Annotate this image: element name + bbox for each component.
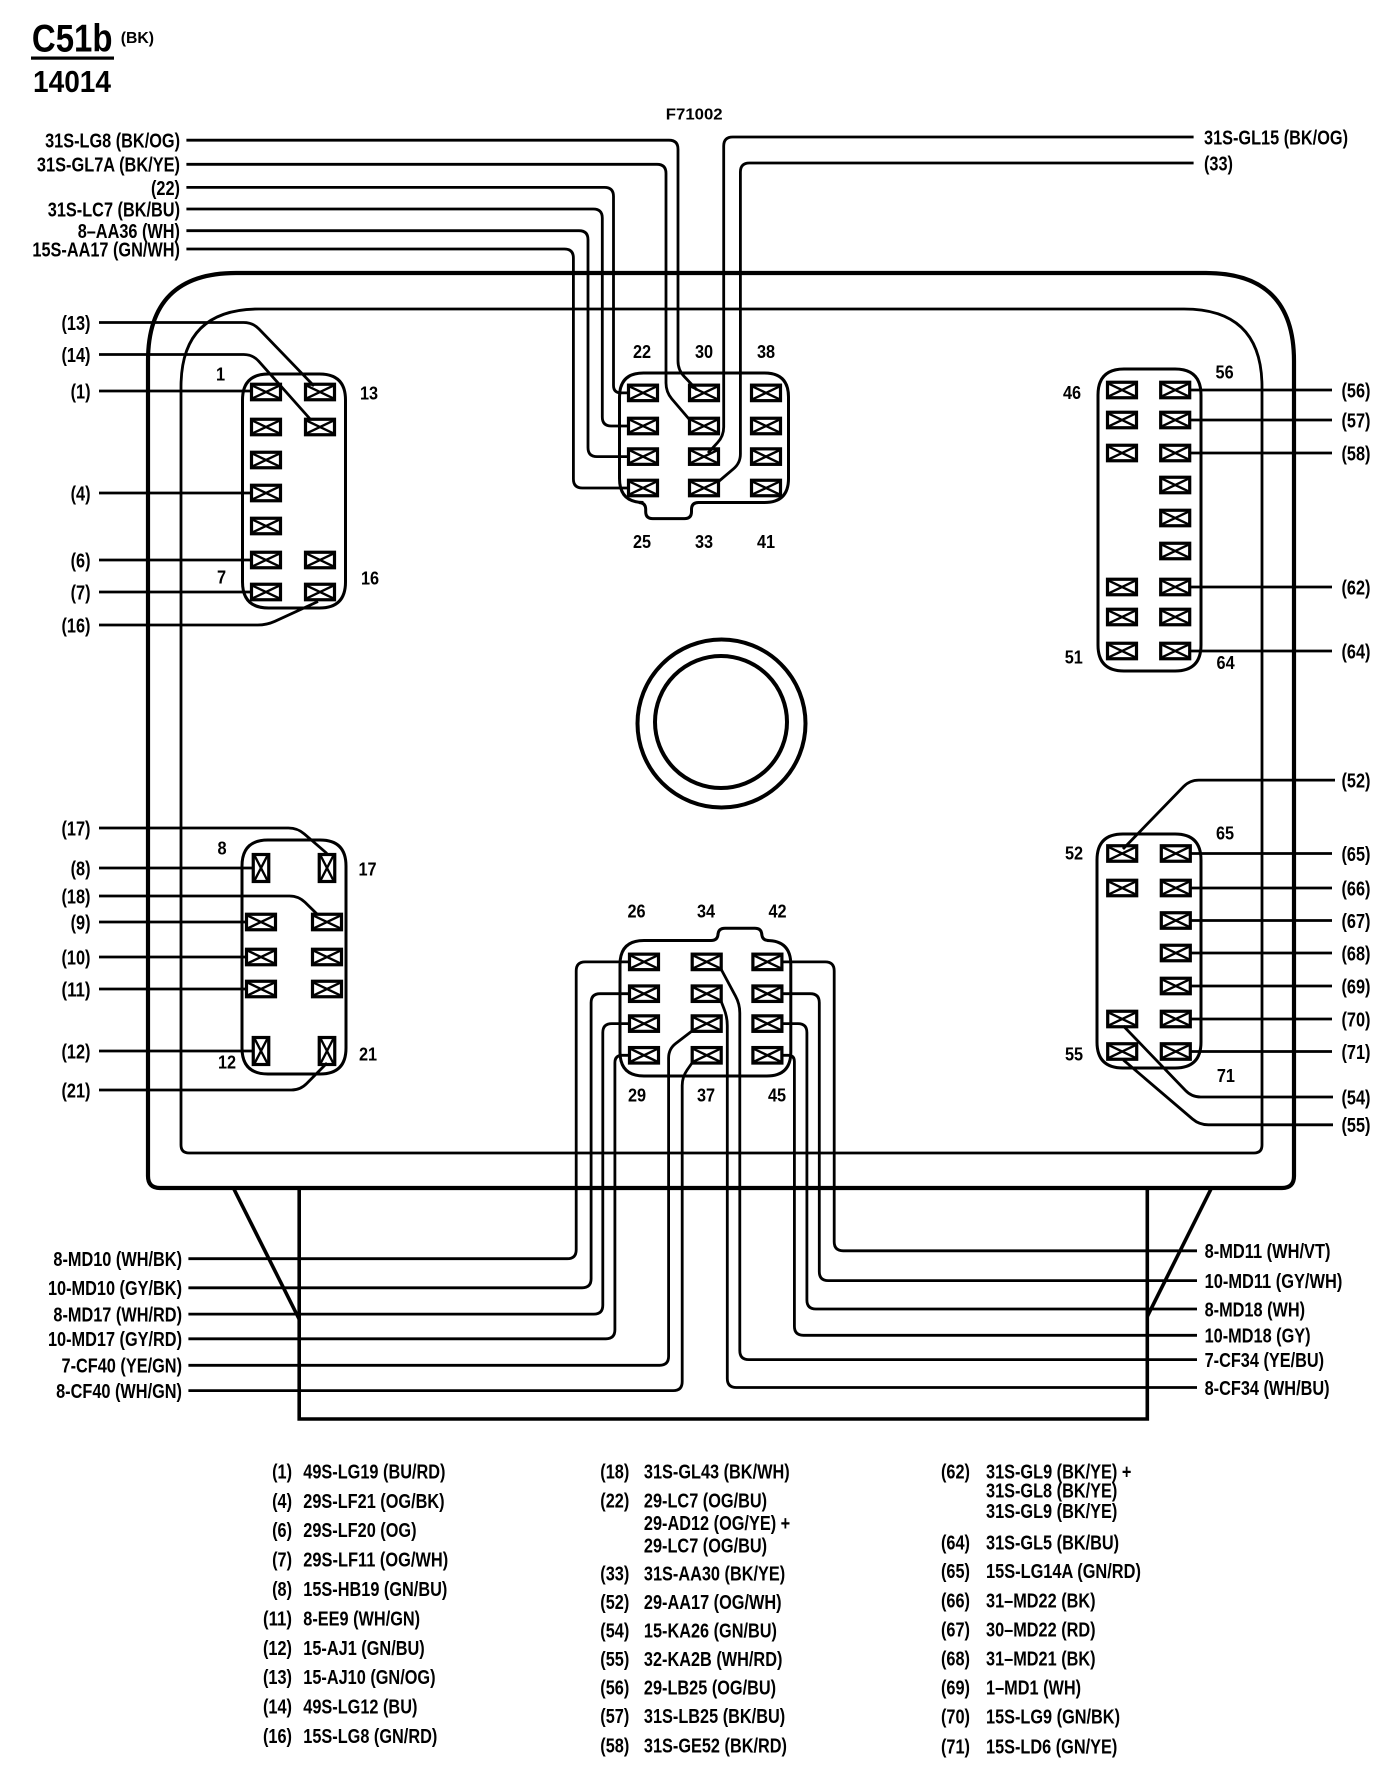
- wire wire 7-CF40 (YE/GN): [188, 1031, 692, 1365]
- svg-text:29: 29: [628, 1085, 646, 1106]
- svg-text:8-MD18 (WH): 8-MD18 (WH): [1205, 1298, 1306, 1321]
- pin 8: [253, 855, 269, 882]
- connector inner outline: [181, 309, 1262, 1153]
- wire 31S-LC7 (BK/BU) to pin 23: [186, 209, 628, 426]
- svg-text:51: 51: [1065, 647, 1083, 668]
- svg-text:31S-LC7 (BK/BU): 31S-LC7 (BK/BU): [48, 198, 180, 221]
- svg-text:10-MD17 (GY/RD): 10-MD17 (GY/RD): [48, 1328, 182, 1351]
- svg-text:15S-AA17 (GN/WH): 15S-AA17 (GN/WH): [32, 238, 180, 261]
- svg-text:(57): (57): [1342, 409, 1371, 432]
- pin 42: [753, 954, 782, 970]
- keyway circle outer: [638, 640, 806, 808]
- wire callout (68): [1190, 952, 1332, 955]
- wire wire 10-MD18 (GY): [782, 1055, 1197, 1335]
- pin 29: [630, 1048, 659, 1064]
- svg-text:(67): (67): [941, 1618, 970, 1641]
- svg-text:(1): (1): [71, 380, 91, 403]
- svg-text:7-CF34 (YE/BU): 7-CF34 (YE/BU): [1205, 1349, 1325, 1372]
- svg-text:(69): (69): [1342, 975, 1371, 998]
- svg-text:(18): (18): [62, 885, 91, 908]
- svg-text:(55): (55): [1342, 1114, 1371, 1137]
- pin 26: [630, 954, 659, 970]
- cavity block C outline (pins 22-41): [620, 373, 789, 519]
- svg-text:(8): (8): [272, 1578, 292, 1601]
- svg-text:(33): (33): [600, 1562, 629, 1585]
- pin 13: [306, 384, 335, 400]
- pin 64: [1161, 643, 1190, 659]
- svg-text:71: 71: [1217, 1065, 1235, 1086]
- pin 53: [1108, 880, 1137, 896]
- pin 9: [247, 914, 276, 930]
- cavity block D outline (pins 26-45): [620, 928, 791, 1076]
- wire callout (6): [99, 559, 252, 562]
- wire callout (57): [1190, 419, 1332, 422]
- wire wire 10-MD17 (GY/RD): [188, 1055, 629, 1339]
- svg-text:(70): (70): [941, 1705, 970, 1728]
- svg-text:(10): (10): [62, 946, 91, 969]
- pin 32: [690, 449, 719, 465]
- pin 30: [690, 385, 719, 401]
- svg-text:29-LC7 (OG/BU): 29-LC7 (OG/BU): [644, 1534, 767, 1557]
- svg-text:(52): (52): [600, 1591, 629, 1614]
- wire callout (64): [1190, 650, 1332, 653]
- pin 66: [1161, 880, 1190, 896]
- pin 31: [690, 418, 719, 434]
- svg-text:(17): (17): [62, 817, 91, 840]
- svg-text:10-MD11 (GY/WH): 10-MD11 (GY/WH): [1205, 1270, 1343, 1293]
- svg-text:(12): (12): [263, 1637, 292, 1660]
- pin 48: [1108, 445, 1137, 461]
- svg-text:30–MD22 (RD): 30–MD22 (RD): [986, 1618, 1096, 1641]
- wire callout (12): [99, 1050, 253, 1053]
- pin 37: [692, 1048, 721, 1064]
- pin 51: [1108, 643, 1137, 659]
- cavity block E outline (pins 46-64): [1098, 369, 1201, 671]
- svg-text:(55): (55): [600, 1648, 629, 1671]
- svg-text:38: 38: [757, 341, 775, 362]
- svg-text:(57): (57): [600, 1705, 629, 1728]
- wire callout (55): [1123, 1060, 1333, 1125]
- svg-text:(56): (56): [1342, 379, 1371, 402]
- wire 15S-AA17 (GN/WH) to pin 25: [186, 249, 628, 488]
- svg-text:8-EE9 (WH/GN): 8-EE9 (WH/GN): [303, 1607, 420, 1630]
- svg-text:(54): (54): [1342, 1086, 1371, 1109]
- wire callout (16): [99, 602, 318, 626]
- svg-text:(65): (65): [1342, 843, 1371, 866]
- svg-text:(69): (69): [941, 1676, 970, 1699]
- pin 15: [306, 552, 335, 568]
- pin 20: [313, 981, 342, 997]
- svg-text:14014: 14014: [33, 64, 112, 99]
- svg-text:(68): (68): [941, 1647, 970, 1670]
- svg-text:(12): (12): [62, 1040, 91, 1063]
- svg-text:(66): (66): [1342, 877, 1371, 900]
- wire wire 10-MD10 (GY/BK): [188, 994, 629, 1288]
- svg-text:12: 12: [218, 1052, 236, 1073]
- pin 46: [1108, 382, 1137, 398]
- pin 67: [1161, 913, 1190, 929]
- svg-text:(66): (66): [941, 1589, 970, 1612]
- svg-text:(13): (13): [62, 312, 91, 335]
- svg-text:46: 46: [1063, 382, 1081, 403]
- svg-text:13: 13: [360, 383, 378, 404]
- pin 71: [1161, 1044, 1190, 1060]
- svg-text:(64): (64): [941, 1531, 970, 1554]
- svg-text:8-CF40 (WH/GN): 8-CF40 (WH/GN): [56, 1380, 182, 1403]
- svg-text:49S-LG12 (BU): 49S-LG12 (BU): [303, 1696, 417, 1719]
- svg-text:32-KA2B (WH/RD): 32-KA2B (WH/RD): [644, 1648, 783, 1671]
- pin 1: [252, 384, 281, 400]
- svg-text:31–MD21 (BK): 31–MD21 (BK): [986, 1647, 1096, 1670]
- svg-text:15-AJ1 (GN/BU): 15-AJ1 (GN/BU): [303, 1637, 424, 1660]
- wire callout (9): [99, 921, 247, 924]
- pin 52: [1108, 846, 1137, 862]
- svg-text:10-MD18 (GY): 10-MD18 (GY): [1205, 1325, 1311, 1348]
- svg-text:(BK): (BK): [121, 30, 154, 47]
- svg-text:21: 21: [359, 1044, 377, 1065]
- svg-text:C51b: C51b: [32, 18, 113, 61]
- wire callout (8): [99, 867, 253, 870]
- wire callout (10): [99, 956, 247, 959]
- svg-text:8-MD10 (WH/BK): 8-MD10 (WH/BK): [53, 1248, 182, 1271]
- wire callout (62): [1190, 586, 1332, 589]
- svg-text:(54): (54): [600, 1619, 629, 1642]
- svg-text:29S-LF20 (OG): 29S-LF20 (OG): [303, 1519, 416, 1542]
- wire callout (18): [99, 896, 317, 914]
- svg-text:7-CF40 (YE/GN): 7-CF40 (YE/GN): [62, 1355, 183, 1378]
- pin 70: [1161, 1011, 1190, 1027]
- pin 5: [252, 518, 281, 534]
- wire wire 8-MD11 (WH/VT): [782, 962, 1197, 1251]
- pin 62: [1161, 579, 1190, 595]
- svg-text:(71): (71): [941, 1735, 970, 1758]
- pin 55: [1108, 1044, 1137, 1060]
- pin 49: [1108, 579, 1137, 595]
- wire wire 8-MD10 (WH/BK): [188, 962, 629, 1259]
- svg-text:29-AA17 (OG/WH): 29-AA17 (OG/WH): [644, 1591, 782, 1614]
- svg-text:(62): (62): [941, 1460, 970, 1483]
- svg-text:31S-GL7A (BK/YE): 31S-GL7A (BK/YE): [37, 154, 180, 177]
- svg-text:(58): (58): [600, 1734, 629, 1757]
- wire 8-AA36 (WH) to pin 24: [186, 231, 628, 457]
- svg-text:15S-HB19 (GN/BU): 15S-HB19 (GN/BU): [303, 1578, 447, 1601]
- svg-text:29S-LF21 (OG/BK): 29S-LF21 (OG/BK): [303, 1490, 444, 1513]
- svg-text:(71): (71): [1342, 1041, 1371, 1064]
- svg-text:25: 25: [633, 531, 651, 552]
- svg-text:(67): (67): [1342, 910, 1371, 933]
- pin 39: [752, 418, 781, 434]
- svg-text:(16): (16): [62, 614, 91, 637]
- wire wire 7-CF34 (YE/BU): [721, 969, 1197, 1360]
- wire callout (67): [1190, 919, 1332, 922]
- svg-text:8-MD17 (WH/RD): 8-MD17 (WH/RD): [53, 1304, 182, 1327]
- pin 34: [692, 954, 721, 970]
- pin 56: [1161, 382, 1190, 398]
- wire callout (58): [1190, 452, 1332, 455]
- pin 63: [1161, 609, 1190, 625]
- pin 33: [690, 480, 719, 496]
- connector outer outline: [148, 273, 1294, 1188]
- pin 21: [319, 1038, 335, 1065]
- pin 41: [752, 480, 781, 496]
- pin 2: [252, 419, 281, 435]
- pin 57: [1161, 412, 1190, 428]
- svg-text:15S-LG9 (GN/BK): 15S-LG9 (GN/BK): [986, 1705, 1120, 1728]
- svg-text:8-MD11 (WH/VT): 8-MD11 (WH/VT): [1205, 1240, 1331, 1263]
- svg-text:31–MD22 (BK): 31–MD22 (BK): [986, 1589, 1096, 1612]
- svg-text:8: 8: [217, 838, 226, 859]
- pin 44: [753, 1016, 782, 1032]
- wire wire 10-MD11 (GY/WH): [782, 994, 1197, 1281]
- svg-text:41: 41: [757, 531, 775, 552]
- svg-text:8-CF34 (WH/BU): 8-CF34 (WH/BU): [1205, 1377, 1330, 1400]
- svg-text:56: 56: [1216, 362, 1234, 383]
- svg-text:15S-LD6 (GN/YE): 15S-LD6 (GN/YE): [986, 1735, 1117, 1758]
- svg-text:31S-LB25 (BK/BU): 31S-LB25 (BK/BU): [644, 1705, 785, 1728]
- wire wire 8-MD17 (WH/RD): [188, 1024, 629, 1315]
- svg-text:31S-LG8 (BK/OG): 31S-LG8 (BK/OG): [45, 130, 180, 153]
- svg-text:30: 30: [695, 341, 713, 362]
- funnel left vertical, bottom and right vertical edge: [299, 1187, 1147, 1419]
- header underline: [31, 57, 114, 60]
- svg-text:(22): (22): [151, 177, 180, 200]
- svg-text:15S-LG14A (GN/RD): 15S-LG14A (GN/RD): [986, 1560, 1141, 1583]
- wire callout (4): [99, 492, 252, 495]
- pin 28: [630, 1016, 659, 1032]
- svg-text:(14): (14): [263, 1696, 292, 1719]
- wire net (22) to pin 22: [186, 187, 628, 393]
- svg-text:33: 33: [695, 531, 713, 552]
- pin 4: [252, 485, 281, 501]
- svg-text:65: 65: [1216, 823, 1234, 844]
- svg-text:(16): (16): [263, 1725, 292, 1748]
- svg-text:(1): (1): [272, 1460, 292, 1483]
- svg-text:(56): (56): [600, 1676, 629, 1699]
- wire callout (56): [1190, 389, 1332, 392]
- wire callout (70): [1190, 1018, 1332, 1021]
- wire callout (69): [1190, 985, 1332, 988]
- svg-text:10-MD10 (GY/BK): 10-MD10 (GY/BK): [48, 1277, 182, 1300]
- svg-text:(65): (65): [941, 1560, 970, 1583]
- svg-text:7: 7: [217, 567, 226, 588]
- pin 14: [306, 419, 335, 435]
- funnel right diagonal edge: [1147, 1187, 1212, 1316]
- cavity block B outline (pins 8-21): [242, 840, 346, 1074]
- pin 60: [1161, 510, 1190, 526]
- svg-text:(70): (70): [1342, 1008, 1371, 1031]
- pin 18: [313, 914, 342, 930]
- svg-text:(9): (9): [71, 911, 91, 934]
- pin 27: [630, 986, 659, 1002]
- svg-text:(21): (21): [62, 1079, 91, 1102]
- svg-text:15-AJ10 (GN/OG): 15-AJ10 (GN/OG): [303, 1666, 435, 1689]
- pin 10: [247, 949, 276, 965]
- pin 61: [1161, 543, 1190, 559]
- wire net (33) to pin 33: [718, 163, 1194, 482]
- pin 69: [1161, 978, 1190, 994]
- svg-text:29-AD12 (OG/YE) +: 29-AD12 (OG/YE) +: [644, 1512, 790, 1535]
- svg-text:22: 22: [633, 341, 651, 362]
- pin 38: [752, 385, 781, 401]
- pin 45: [753, 1048, 782, 1064]
- wire callout (13): [99, 323, 314, 387]
- svg-text:(4): (4): [272, 1490, 292, 1513]
- svg-text:(62): (62): [1342, 576, 1371, 599]
- pin 40: [752, 449, 781, 465]
- svg-text:(33): (33): [1204, 152, 1233, 175]
- svg-text:1–MD1 (WH): 1–MD1 (WH): [986, 1676, 1081, 1699]
- pin 12: [253, 1038, 269, 1065]
- wire callout (65): [1190, 852, 1332, 855]
- funnel left diagonal edge: [234, 1189, 300, 1320]
- cavity block A outline (pins 1-16): [243, 374, 346, 608]
- pin 50: [1108, 609, 1137, 625]
- svg-text:45: 45: [768, 1085, 786, 1106]
- svg-text:17: 17: [358, 859, 376, 880]
- svg-text:(8): (8): [71, 857, 91, 880]
- svg-text:(4): (4): [71, 482, 91, 505]
- pin 22: [629, 385, 658, 401]
- pin 43: [753, 986, 782, 1002]
- svg-text:26: 26: [627, 901, 645, 922]
- cavity block F outline (pins 52-71): [1097, 834, 1201, 1068]
- svg-text:(58): (58): [1342, 442, 1371, 465]
- svg-text:31S-AA30 (BK/YE): 31S-AA30 (BK/YE): [644, 1562, 785, 1585]
- pin 25: [629, 480, 658, 496]
- svg-text:15S-LG8 (GN/RD): 15S-LG8 (GN/RD): [303, 1725, 437, 1748]
- svg-text:(7): (7): [272, 1549, 292, 1572]
- wire callout (66): [1190, 887, 1332, 890]
- svg-text:(14): (14): [62, 344, 91, 367]
- wire callout (7): [99, 591, 252, 594]
- svg-text:(52): (52): [1342, 770, 1371, 793]
- svg-text:16: 16: [361, 568, 379, 589]
- wire callout (17): [99, 828, 327, 854]
- pin 65: [1161, 846, 1190, 862]
- svg-text:49S-LG19 (BU/RD): 49S-LG19 (BU/RD): [303, 1460, 445, 1483]
- svg-text:34: 34: [697, 901, 716, 922]
- pin 6: [252, 552, 281, 568]
- wire callout (21): [99, 1063, 327, 1090]
- svg-text:F71002: F71002: [666, 107, 723, 124]
- wire wire 8-CF40 (WH/GN): [188, 1063, 692, 1391]
- svg-text:52: 52: [1065, 843, 1083, 864]
- svg-text:(11): (11): [263, 1607, 292, 1630]
- svg-text:37: 37: [697, 1085, 715, 1106]
- svg-text:(7): (7): [71, 581, 91, 604]
- svg-text:(11): (11): [62, 978, 91, 1001]
- wire callout (14): [99, 355, 311, 421]
- wire callout (1): [99, 390, 252, 393]
- pin 35: [692, 986, 721, 1002]
- pin 24: [629, 449, 658, 465]
- svg-text:31S-GL15 (BK/OG): 31S-GL15 (BK/OG): [1204, 126, 1348, 149]
- wire 31S-GL7A (BK/YE) to pin 31: [186, 164, 689, 419]
- pin 23: [629, 418, 658, 434]
- pin 3: [252, 452, 281, 468]
- wire wire 8-CF34 (WH/BU): [721, 1001, 1197, 1388]
- pin 7: [252, 584, 281, 600]
- svg-text:(64): (64): [1342, 640, 1371, 663]
- wire callout (11): [99, 988, 247, 991]
- svg-text:15-KA26 (GN/BU): 15-KA26 (GN/BU): [644, 1619, 777, 1642]
- pin 16: [306, 584, 335, 600]
- svg-text:31S-GE52 (BK/RD): 31S-GE52 (BK/RD): [644, 1734, 787, 1757]
- svg-text:(22): (22): [600, 1489, 629, 1512]
- svg-text:29-LB25 (OG/BU): 29-LB25 (OG/BU): [644, 1676, 776, 1699]
- pin 11: [247, 981, 276, 997]
- svg-text:55: 55: [1065, 1044, 1083, 1065]
- svg-text:1: 1: [216, 364, 225, 385]
- svg-text:31S-GL5 (BK/BU): 31S-GL5 (BK/BU): [986, 1531, 1119, 1554]
- pin 36: [692, 1016, 721, 1032]
- svg-text:31S-GL43 (BK/WH): 31S-GL43 (BK/WH): [644, 1460, 790, 1483]
- wire callout (71): [1190, 1050, 1332, 1053]
- pin 68: [1161, 945, 1190, 961]
- pin 58: [1161, 445, 1190, 461]
- svg-text:(6): (6): [71, 549, 91, 572]
- pin 47: [1108, 412, 1137, 428]
- svg-text:(6): (6): [272, 1519, 292, 1542]
- svg-text:(68): (68): [1342, 942, 1371, 965]
- wire 31S-GL15 (BK/OG) to pin 32: [708, 137, 1194, 453]
- svg-text:42: 42: [768, 901, 786, 922]
- wire callout (52): [1123, 780, 1335, 849]
- pin 19: [313, 949, 342, 965]
- pin 59: [1161, 477, 1190, 493]
- svg-text:64: 64: [1217, 652, 1236, 673]
- svg-text:(18): (18): [600, 1460, 629, 1483]
- wire callout (54): [1123, 1026, 1333, 1097]
- svg-text:29S-LF11 (OG/WH): 29S-LF11 (OG/WH): [303, 1549, 448, 1572]
- svg-text:31S-GL9 (BK/YE): 31S-GL9 (BK/YE): [986, 1500, 1117, 1523]
- keyway circle inner: [655, 656, 787, 788]
- pin 17: [319, 855, 335, 882]
- wire 31S-LG8 (BK/OG) to pin 30: [186, 140, 697, 390]
- svg-text:(13): (13): [263, 1666, 292, 1689]
- pin 54: [1108, 1011, 1137, 1027]
- wire wire 8-MD18 (WH): [782, 1024, 1197, 1309]
- svg-text:29-LC7 (OG/BU): 29-LC7 (OG/BU): [644, 1489, 767, 1512]
